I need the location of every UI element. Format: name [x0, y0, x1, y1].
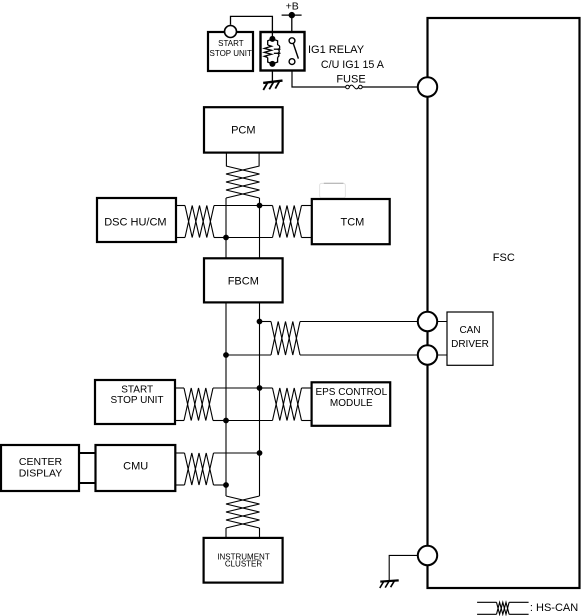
- wire: left CAN bus line upper segment: [225, 198, 227, 258]
- wire: start stop unit branch CAN-H: [175, 387, 260, 389]
- legend label: HS-CAN: [530, 602, 578, 614]
- connector circle on FSC: CAN driver L: [418, 345, 437, 364]
- wire: center display to CMU bottom link: [79, 482, 96, 484]
- module box: INSTRUMENT CLUSTER: [204, 538, 283, 583]
- wire: DSC HU/CM branch CAN-L: [176, 237, 226, 239]
- wire: TCM branch CAN-H: [260, 205, 313, 207]
- wire: right CAN bus line lower segment: [259, 302, 261, 496]
- module box: EPS CONTROL MODULE: [312, 382, 391, 426]
- svg-text:IG1 RELAY: IG1 RELAY: [308, 44, 365, 56]
- wire: EPS branch CAN-L: [226, 420, 313, 422]
- svg-text:CENTER: CENTER: [19, 456, 63, 468]
- wire: right CAN bus line upper segment: [259, 198, 261, 258]
- module box: START STOP UNIT (ignition): [208, 32, 253, 71]
- svg-text:C/U IG1 15 A: C/U IG1 15 A: [321, 59, 385, 71]
- module box: CMU: [96, 445, 176, 491]
- connector circle on FSC: IG1 fuse feed: [418, 77, 437, 96]
- junction node: CMU CAN-H: [257, 450, 263, 456]
- wire: EPS branch CAN-H: [260, 387, 313, 389]
- ground: relay coil ground: [263, 66, 282, 90]
- wire: CAN driver branch CAN-H: [260, 321, 419, 323]
- relay coil inductor: [274, 45, 281, 57]
- junction node: CAN driver CAN-L: [223, 352, 229, 358]
- svg-text:MODULE: MODULE: [330, 398, 373, 409]
- twisted pair: CMU to bus: [185, 453, 214, 485]
- relay coil frame: [268, 39, 278, 64]
- module box: CENTER DISPLAY: [1, 445, 79, 491]
- twisted pair: bus to CAN driver: [271, 322, 300, 356]
- wire: start stop unit to relay coil: [231, 16, 273, 39]
- twisted pair: bus to EPS control module: [273, 388, 302, 421]
- ghost artifact above TCM: [320, 183, 346, 198]
- svg-text:FSC: FSC: [493, 252, 515, 264]
- svg-text:EPS CONTROL: EPS CONTROL: [315, 387, 387, 398]
- wire: CAN driver branch CAN-L: [226, 354, 419, 356]
- svg-text:CAN: CAN: [459, 325, 480, 336]
- wire: TCM branch CAN-L: [226, 237, 313, 239]
- wire: start stop unit branch CAN-L: [175, 420, 226, 422]
- module box: DSC HU/CM: [97, 198, 176, 242]
- module box: TCM: [312, 199, 390, 244]
- svg-text:FBCM: FBCM: [228, 275, 259, 287]
- wire: DSC HU/CM branch CAN-H: [176, 205, 260, 207]
- wire: CMU branch CAN-H: [175, 452, 259, 454]
- connector circle on start stop unit: [225, 26, 237, 38]
- svg-text:STOP UNIT: STOP UNIT: [111, 395, 164, 406]
- junction node: SSU/EPS CAN-H: [257, 385, 263, 391]
- svg-text:+B: +B: [286, 0, 299, 12]
- module box: FBCM: [204, 258, 283, 302]
- wire: +B to relay contact: [291, 15, 293, 38]
- module box: PCM: [204, 107, 283, 152]
- twisted pair: DSC HU/CM to bus: [185, 206, 214, 238]
- svg-text:STOP UNIT: STOP UNIT: [210, 49, 252, 58]
- svg-text:TCM: TCM: [340, 217, 364, 229]
- svg-text:FUSE: FUSE: [336, 73, 365, 85]
- svg-text:CLUSTER: CLUSTER: [225, 560, 263, 569]
- svg-text:START: START: [121, 385, 153, 396]
- relay coil node bottom: [269, 61, 275, 67]
- relay coil node top: [269, 33, 275, 42]
- junction node: DSC/TCM CAN-L: [223, 235, 229, 241]
- svg-text:DISPLAY: DISPLAY: [19, 468, 63, 480]
- ground: FSC ground: [380, 580, 399, 588]
- connector circle on FSC: ground: [418, 546, 437, 565]
- connector circle on FSC: CAN driver H: [418, 312, 437, 331]
- ECU box: FSC: [428, 18, 580, 588]
- twisted pair: PCM to CAN bus: [226, 153, 260, 198]
- power node +B: [282, 0, 302, 18]
- wire: connector to CAN driver bottom: [437, 354, 447, 356]
- svg-text:PCM: PCM: [231, 124, 255, 136]
- label: IG1 RELAY: [308, 44, 365, 56]
- twisted pair: start stop unit to bus: [184, 388, 213, 421]
- svg-text:CMU: CMU: [123, 460, 148, 472]
- relay switch contact bottom: [289, 59, 295, 65]
- wire: relay contact to fuse: [292, 62, 346, 87]
- wire: left CAN bus line lower segment: [225, 302, 227, 496]
- svg-text:: HS-CAN: : HS-CAN: [530, 602, 578, 614]
- legend: HS-CAN twisted pair symbol: [477, 602, 528, 614]
- relay coil resistor: [264, 45, 271, 58]
- module box: CAN DRIVER: [447, 312, 493, 365]
- junction node: DSC/TCM CAN-H: [257, 203, 263, 209]
- junction node: CMU CAN-L: [223, 482, 229, 488]
- label: FUSE: [336, 73, 365, 85]
- wire: center display to CMU top link: [79, 452, 96, 454]
- svg-text:START: START: [218, 39, 244, 48]
- junction node: SSU/EPS CAN-L: [223, 418, 229, 424]
- label: C/U IG1 15 A: [321, 59, 385, 71]
- relay switch contact top: [289, 38, 295, 44]
- twisted pair: bus to TCM: [273, 206, 302, 238]
- twisted pair: CAN bus to instrument cluster: [226, 496, 260, 539]
- svg-text:DSC HU/CM: DSC HU/CM: [104, 217, 166, 229]
- svg-text:DRIVER: DRIVER: [451, 339, 489, 350]
- module box: START STOP UNIT: [95, 380, 175, 424]
- wire: FSC connector to ground: [389, 555, 418, 580]
- wire: connector to CAN driver top: [437, 321, 447, 323]
- relay switch blade: [293, 44, 298, 59]
- wire: fuse to FSC connector: [362, 86, 418, 88]
- fuse C/U IG1 15 A: [346, 85, 363, 89]
- relay box: IG1 RELAY: [261, 32, 305, 71]
- wire: CMU branch CAN-L: [175, 484, 226, 486]
- junction node: CAN driver CAN-H: [257, 319, 263, 325]
